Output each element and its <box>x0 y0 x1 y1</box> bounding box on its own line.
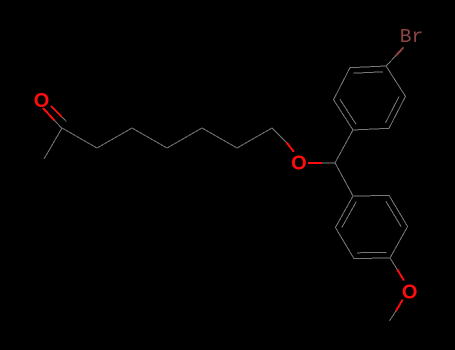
C=O double bond line 2 gray half <box>62 117 67 122</box>
bond C8 - upper ring <box>335 130 353 163</box>
upper ring inner double bond V4V5 <box>354 72 384 73</box>
C=O double bond line 1 red half <box>43 108 55 121</box>
C=O double bond line 1 gray half <box>55 121 63 129</box>
bond C8 - lower ring <box>335 163 353 196</box>
bond lower ring - O3 red half <box>397 269 404 280</box>
lower ring inner double bond V4V5 <box>357 251 387 253</box>
upper benzene ring (4-bromophenyl) <box>334 66 406 130</box>
bond lower ring - O3 gray half <box>390 258 397 269</box>
upper ring inner double bond V6V1 <box>340 99 356 124</box>
lower ring inner double bond V2V3 <box>386 201 401 226</box>
bond C7 - O2 gray half <box>272 128 286 142</box>
upper ring inner double bond V2V3 <box>386 97 400 123</box>
chain zigzag C1-C7 <box>62 128 272 148</box>
svg-text:Br: Br <box>400 26 423 48</box>
methoxy methyl bond gray half <box>390 311 397 321</box>
bond ring - Br dark red half <box>395 47 404 56</box>
lower ring inner double bond V6V1 <box>342 202 356 228</box>
svg-text:O: O <box>402 282 418 304</box>
lower benzene ring (4-methoxyphenyl) <box>335 196 407 259</box>
C=O double bond line 2 red half <box>51 106 62 117</box>
bond O2 - C8 gray half <box>322 162 335 164</box>
bond ring - Br gray half <box>386 57 395 66</box>
methoxy methyl bond red half <box>396 300 403 311</box>
acetyl methyl bond <box>44 128 62 159</box>
bond C7 - O2 red half <box>286 142 293 152</box>
svg-text:O: O <box>34 90 50 112</box>
svg-text:O: O <box>291 153 307 175</box>
bond O2 - C8 red half <box>308 162 322 164</box>
